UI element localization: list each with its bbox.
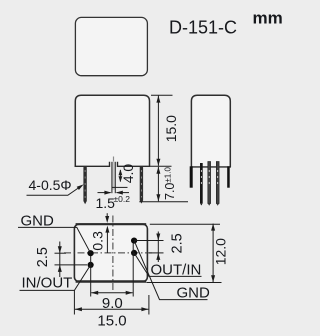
pin dot bottom-left: [88, 262, 94, 268]
dim 15.0 bottom line: [75, 308, 148, 310]
svg-text:7.0±1.0: 7.0±1.0: [163, 167, 177, 200]
svg-text:4-0.5Φ: 4-0.5Φ: [29, 177, 72, 193]
pin dot top-right: [131, 238, 137, 244]
dim 9.0 extension lines: [90, 256, 92, 297]
svg-text:IN/OUT: IN/OUT: [22, 275, 73, 292]
top view body: [75, 17, 147, 75]
svg-text:2.5: 2.5: [35, 247, 51, 267]
dim 2.5 left line and arrows: [59, 242, 61, 278]
pin dot mid-right: [131, 250, 137, 256]
svg-text:GND: GND: [21, 212, 55, 229]
dim 15.0 front extension mid: [150, 165, 171, 167]
leader GND bottom-right: [134, 241, 207, 300]
front pin left: [83, 166, 86, 202]
front pin right: [140, 166, 143, 201]
dim 7.0±1.0 line: [157, 167, 159, 202]
dim 2.5 left extension lines: [55, 252, 67, 254]
dim 12.0 extension bottom: [147, 282, 222, 284]
dim 12.0 line: [212, 224, 214, 283]
svg-text:±0.2: ±0.2: [114, 194, 131, 204]
bottom view thick bottom edge: [76, 280, 147, 283]
dim 0.3 arrow below: [106, 231, 108, 253]
bottom view body: [74, 224, 147, 281]
svg-text:D-151-C: D-151-C: [169, 18, 237, 38]
centerline vertical: [112, 216, 114, 291]
svg-text:mm: mm: [253, 9, 283, 28]
svg-text:1.5: 1.5: [96, 195, 116, 211]
dim 2.5 right extension lines: [134, 240, 163, 242]
leader IN/OUT: [20, 265, 91, 291]
dim 4.0 line: [119, 170, 121, 182]
front pin middle (1.5 wide): [112, 162, 114, 190]
side pin 1: [200, 163, 203, 203]
leader GND top-left: [18, 227, 91, 253]
svg-text:4.0: 4.0: [120, 164, 136, 184]
dim 15.0 front line: [157, 96, 159, 166]
svg-text:15.0: 15.0: [97, 313, 126, 330]
svg-text:0.3: 0.3: [89, 231, 105, 251]
front view bottom edge with notch: [75, 162, 151, 167]
svg-text:2.5: 2.5: [170, 233, 186, 253]
side standoff left: [190, 166, 193, 187]
svg-text:GND: GND: [177, 284, 211, 301]
bottom view thick top edge: [76, 223, 147, 225]
leader 4-0.5Φ: [27, 188, 79, 195]
dim 4.0 extension: [112, 186, 128, 188]
side standoff right: [227, 166, 230, 187]
leader OUT/IN: [134, 253, 201, 277]
side pin 3: [216, 162, 219, 204]
front view body: [75, 95, 149, 167]
svg-text:15.0: 15.0: [163, 115, 179, 142]
dim 1.5±0.2 arrows: [98, 192, 111, 194]
dim 9.0 line: [91, 292, 133, 294]
side view body: [191, 95, 230, 167]
svg-text:12.0: 12.0: [213, 238, 229, 265]
dim 0.3 arrow above: [106, 213, 108, 216]
side pin 2: [208, 162, 211, 204]
dim 7.0 extension bottom: [139, 201, 188, 203]
dim 15.0 front extension top: [151, 94, 173, 96]
dim 12.0 extension top: [150, 223, 220, 225]
dim 2.5 right line and arrows: [157, 232, 159, 263]
side view bottom edge: [191, 166, 231, 168]
centerline tick above middle pin: [113, 157, 115, 162]
dim 15.0 bottom extension lines: [73, 290, 75, 315]
centerline horizontal: [64, 252, 153, 254]
pin dot top-left: [88, 250, 94, 256]
